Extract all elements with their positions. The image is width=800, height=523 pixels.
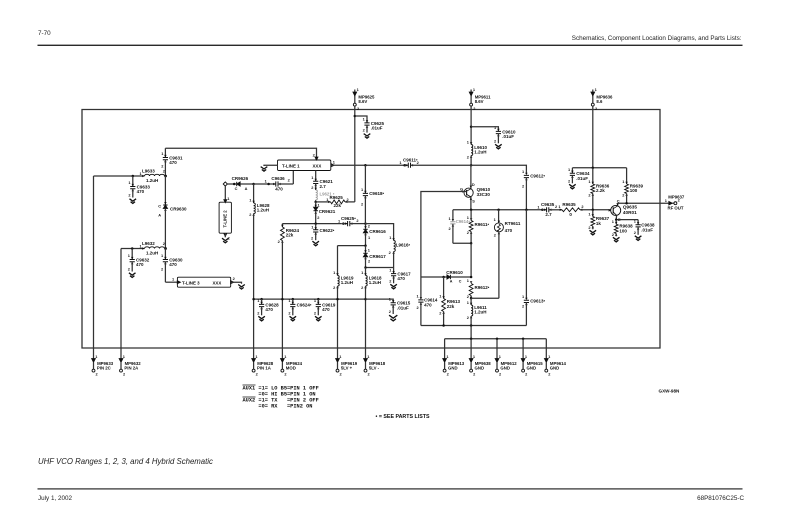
pin MP9625 — [353, 87, 375, 111]
svg-text:470: 470 — [265, 307, 273, 312]
wire mid bus — [282, 222, 341, 225]
svg-text:1.2uH: 1.2uH — [146, 250, 158, 255]
svg-text:RT9611: RT9611 — [505, 221, 521, 226]
svg-text:470: 470 — [322, 307, 330, 312]
svg-text:G: G — [460, 186, 463, 191]
inductor L9619 — [333, 246, 354, 348]
svg-text:R9625: R9625 — [330, 195, 344, 200]
svg-text:8.6V: 8.6V — [475, 99, 484, 104]
svg-text:40R01: 40R01 — [623, 210, 637, 215]
svg-text:MOD: MOD — [286, 366, 296, 371]
svg-text:C: C — [459, 280, 462, 284]
ground left of T-LINE1 — [261, 167, 268, 172]
svg-text:L9633: L9633 — [142, 168, 155, 173]
resistor R9625 — [316, 195, 355, 208]
svg-text:1.2uH: 1.2uH — [474, 310, 486, 315]
capacitor C9622 — [311, 224, 335, 241]
svg-text:GND: GND — [527, 366, 537, 371]
svg-text:C9613•: C9613• — [530, 298, 545, 303]
svg-text:.01uF: .01uF — [641, 227, 653, 232]
svg-text:MP9637: MP9637 — [668, 195, 685, 200]
svg-text:R9635: R9635 — [562, 202, 576, 207]
svg-text:C9612•: C9612• — [530, 173, 545, 178]
pin MP9618 — [364, 348, 386, 377]
capacitor C9610 — [471, 125, 516, 143]
diode CR9630 — [158, 176, 187, 249]
svg-text:CR9630: CR9630 — [170, 206, 187, 211]
ground below C9624 — [290, 316, 297, 321]
svg-text:22k: 22k — [447, 304, 455, 309]
svg-text:1.2uH: 1.2uH — [341, 280, 353, 285]
pin MP9636 — [591, 87, 613, 111]
svg-text:C: C — [235, 186, 238, 191]
ground below C9610 — [495, 144, 502, 149]
capacitor C9631 — [161, 148, 183, 176]
capacitor C9635h — [537, 202, 562, 217]
ground below T-LINE2 — [222, 238, 229, 243]
pin MP9613 — [443, 348, 465, 377]
ground below R9637 — [590, 230, 597, 235]
junction mid main — [364, 222, 367, 225]
svg-text:T-LINE 1: T-LINE 1 — [282, 163, 300, 168]
svg-text:22k: 22k — [334, 203, 342, 208]
svg-text:470: 470 — [397, 276, 405, 281]
svg-text:CR9610: CR9610 — [446, 270, 463, 275]
svg-text:• = SEE PARTS LISTS: • = SEE PARTS LISTS — [376, 414, 430, 420]
svg-text:GND: GND — [448, 366, 458, 371]
wire main output of T-LINE1 — [331, 164, 405, 167]
pin MP9637 RF OUT — [665, 195, 685, 211]
wire lower bus — [252, 298, 366, 301]
resistor R9612 — [467, 278, 490, 299]
capacitor C9634 — [568, 167, 590, 183]
svg-text:A: A — [245, 186, 248, 191]
svg-text:470: 470 — [169, 160, 177, 165]
inductor L9616 — [366, 224, 411, 268]
svg-text:T-LINE 2: T-LINE 2 — [223, 210, 228, 228]
svg-text:Schematics, Component Location: Schematics, Component Location Diagrams,… — [572, 35, 742, 42]
ground below C9628 — [258, 316, 265, 321]
wire main to C9612 — [471, 165, 526, 173]
wire MP9625 down — [354, 106, 357, 202]
svg-text:L9616•: L9616• — [396, 242, 411, 247]
inductor L9610 — [467, 139, 488, 165]
svg-text:2.7: 2.7 — [320, 184, 327, 189]
wire drop MP9612 — [496, 339, 498, 348]
junction CR9626/C9636/L9628 — [252, 183, 255, 186]
wire MP9611 down — [470, 106, 473, 144]
svg-text:470: 470 — [136, 262, 144, 267]
note AUX legend — [243, 385, 319, 409]
svg-text:C9635: C9635 — [541, 202, 555, 207]
capacitor C9612 — [522, 169, 545, 210]
capacitor C9630 — [161, 249, 183, 283]
t-line T-LINE1 — [278, 152, 336, 170]
capacitor C9633 — [128, 176, 150, 198]
svg-text:CR9626: CR9626 — [232, 176, 249, 181]
pin MP9615 — [521, 348, 543, 377]
wire pin header bus — [445, 337, 547, 340]
wire drop MP9638 — [470, 339, 472, 348]
svg-text:470: 470 — [275, 186, 283, 191]
wire MP9633 feed — [93, 176, 95, 348]
capacitor C9625 — [355, 116, 385, 133]
footer rule — [38, 488, 743, 489]
ground below C9615 — [389, 315, 397, 321]
pin MP9619 — [336, 348, 358, 377]
capacitor C9636 — [254, 176, 294, 191]
svg-text:1.2uH: 1.2uH — [474, 150, 486, 155]
inductor L9621 (alt) — [314, 188, 334, 202]
resistor R9636 — [588, 168, 609, 210]
svg-text:R9611•: R9611• — [475, 222, 490, 227]
wire C9636 up to T-LINE1 — [292, 171, 294, 185]
wire L9619 link — [338, 244, 367, 247]
ground below C9619 — [315, 316, 322, 321]
svg-text:D: D — [472, 182, 475, 187]
diode CR9621 — [314, 202, 336, 224]
wire buffer rail — [572, 167, 626, 170]
svg-text:2.7: 2.7 — [545, 212, 552, 217]
pin MP9638 — [469, 348, 491, 377]
wire drop MP9615 — [522, 339, 524, 348]
wire into T-LINE3 — [165, 281, 177, 283]
svg-text:GND: GND — [550, 366, 560, 371]
header rule — [38, 45, 743, 46]
svg-text:PIN 2C: PIN 2C — [97, 366, 111, 371]
diode CR9610 — [421, 270, 472, 284]
node diamond — [223, 182, 227, 186]
wire T-LINE2 pin2 to ground — [224, 233, 226, 237]
diode CR9617 — [363, 246, 386, 268]
svg-text:GXW-98N: GXW-98N — [659, 389, 681, 394]
capacitor C9632 — [128, 249, 150, 272]
pin MP9624 — [281, 348, 303, 377]
wire node A2 horizontal — [121, 247, 167, 250]
capacitor C9638 — [634, 218, 655, 234]
thermistor RT9611 — [494, 210, 521, 298]
capacitor C9611 — [399, 158, 471, 168]
wire RT9611 return — [471, 297, 499, 299]
svg-text:2.2k: 2.2k — [596, 188, 605, 193]
svg-text:1.2uH: 1.2uH — [146, 178, 158, 183]
svg-text:RF OUT: RF OUT — [668, 205, 684, 210]
svg-text:C: C — [158, 203, 161, 208]
capacitor C9619 — [314, 298, 336, 315]
hybrid module outline box — [82, 110, 660, 349]
t-line T-LINE3 — [172, 276, 236, 287]
svg-text:470: 470 — [505, 228, 513, 233]
svg-text:R9612•: R9612• — [475, 285, 490, 290]
resistor R9613 — [439, 277, 460, 326]
capacitor C9613 — [522, 210, 545, 326]
svg-text:470: 470 — [137, 189, 145, 194]
junction main node — [470, 164, 473, 167]
ground below C9633 — [130, 199, 137, 204]
junction R9625 tap — [314, 201, 317, 204]
wire collector out — [618, 202, 669, 205]
capacitor C9625s — [338, 216, 366, 226]
svg-text:33C30: 33C30 — [477, 192, 491, 197]
svg-text:GND: GND — [475, 366, 485, 371]
wire Q9610 gate — [421, 192, 467, 278]
wire bus to pin header — [470, 326, 472, 339]
svg-text:PIN 1A: PIN 1A — [257, 366, 271, 371]
inductor L9633 — [140, 168, 167, 183]
wire base line — [453, 209, 542, 212]
svg-text:.01uF: .01uF — [576, 176, 588, 181]
wire drop MP9614 — [545, 339, 547, 348]
ground below C9638 — [635, 236, 642, 241]
svg-text:GND: GND — [500, 366, 510, 371]
diode CR9616 — [363, 224, 386, 246]
svg-text:A: A — [450, 280, 453, 284]
svg-text:100: 100 — [619, 228, 627, 233]
inductor L9618 — [361, 268, 382, 349]
svg-text:PIN 2A: PIN 2A — [124, 366, 138, 371]
svg-text:5LV +: 5LV + — [341, 366, 353, 371]
wire top link C9631 to T-LINE1 pin2 — [165, 148, 316, 160]
wire T-LINE1 left to ground — [264, 164, 278, 167]
ground below C9632 — [129, 273, 136, 278]
svg-text:=0= RX =PIN2 ON: =0= RX =PIN2 ON — [258, 403, 312, 409]
t-line T-LINE2 — [219, 196, 231, 240]
svg-text:.01uF: .01uF — [371, 125, 383, 130]
wire CR9617 bottom link — [364, 266, 393, 269]
pin MP9633 — [92, 348, 114, 377]
svg-text:S: S — [472, 198, 475, 203]
junction base node — [592, 209, 595, 212]
svg-text:470: 470 — [169, 262, 177, 267]
wire R9611 loop bottom — [453, 242, 472, 245]
pin MP9612 — [495, 348, 517, 377]
ground below C9625 — [364, 134, 371, 139]
transistor Q9635 — [609, 198, 638, 222]
svg-text:.01uF: .01uF — [397, 305, 409, 310]
svg-text:22k: 22k — [286, 233, 294, 238]
svg-text:C9618•: C9618• — [369, 191, 384, 196]
resistor R9624 — [278, 224, 300, 348]
wire MP9636 down — [592, 106, 594, 168]
capacitor C9614a (alt) — [449, 210, 471, 244]
resistor R9635 — [558, 202, 610, 217]
inductor L9632 — [140, 241, 167, 256]
svg-text:C9625•: C9625• — [341, 216, 356, 221]
capacitor C9628 — [257, 298, 279, 315]
ground at T-LINE3 — [238, 285, 245, 290]
transistor Q9610 — [460, 165, 491, 210]
wire emitter link — [615, 218, 638, 221]
svg-text:L9632: L9632 — [142, 241, 155, 246]
svg-text:July 1, 2002: July 1, 2002 — [38, 495, 72, 502]
capacitor C9614b — [417, 277, 438, 326]
capacitor C9615 — [366, 297, 411, 314]
capacitor C9624 — [288, 298, 311, 315]
resistor R9611 — [467, 210, 490, 243]
svg-text:.01uF: .01uF — [502, 134, 514, 139]
svg-text:A: A — [158, 212, 161, 217]
svg-text:T-LINE 3: T-LINE 3 — [182, 280, 200, 285]
wire MP9632 feed — [120, 249, 122, 349]
svg-text:8.6V: 8.6V — [358, 99, 367, 104]
svg-text:1k: 1k — [596, 221, 602, 226]
capacitor C9621 — [311, 171, 333, 191]
svg-text:XXX: XXX — [313, 163, 322, 168]
wire T-LINE3 pin2 to ground — [231, 282, 242, 284]
svg-text:C9636: C9636 — [271, 176, 285, 181]
svg-text:68P81076C25-C: 68P81076C25-C — [697, 495, 744, 502]
svg-text:C9622•: C9622• — [320, 228, 335, 233]
svg-text:470: 470 — [424, 302, 432, 307]
svg-text:CR9616: CR9616 — [369, 229, 386, 234]
resistor R9639 — [622, 168, 643, 203]
wire diamond to T-LINE2 — [224, 186, 226, 202]
svg-text:CR9617: CR9617 — [369, 254, 386, 259]
capacitor C9618 — [361, 165, 384, 223]
capacitor C9617 — [389, 267, 411, 283]
pin MP9632 — [119, 348, 141, 377]
resistor R9638 — [612, 219, 633, 237]
wire node A1 horizontal — [94, 175, 167, 178]
inductor L9628 — [249, 184, 270, 217]
pin MP9614 — [544, 348, 566, 377]
svg-text:UHF VCO Ranges 1, 2, 3, and 4: UHF VCO Ranges 1, 2, 3, and 4 Hybrid Sch… — [38, 457, 213, 466]
svg-text:5LV -: 5LV - — [369, 366, 380, 371]
svg-text:1.2uH: 1.2uH — [257, 208, 269, 213]
ground below C9617 — [390, 284, 397, 289]
svg-text:8.6: 8.6 — [596, 99, 603, 104]
wire R9611 down — [470, 243, 472, 277]
resistor R9637 — [588, 210, 609, 230]
svg-text:C9624•: C9624• — [297, 302, 312, 307]
diode CR9626 — [227, 176, 253, 191]
ground below R9638 — [613, 237, 620, 242]
ground below C9634 — [569, 184, 576, 189]
svg-text:100: 100 — [630, 188, 638, 193]
wire ground bus — [421, 324, 527, 327]
svg-text:1.2uH: 1.2uH — [369, 280, 381, 285]
wire L9628 down to MP9628 — [253, 214, 255, 349]
wire drop MP9613 — [444, 339, 446, 348]
svg-text:7-70: 7-70 — [38, 30, 51, 37]
svg-text:CR9621: CR9621 — [319, 209, 336, 214]
svg-text:XXX: XXX — [213, 280, 222, 285]
ground below C9622 — [312, 241, 319, 246]
pin MP9611 — [469, 87, 491, 111]
pin MP9628 — [252, 348, 274, 377]
inductor L9611 — [467, 298, 488, 325]
